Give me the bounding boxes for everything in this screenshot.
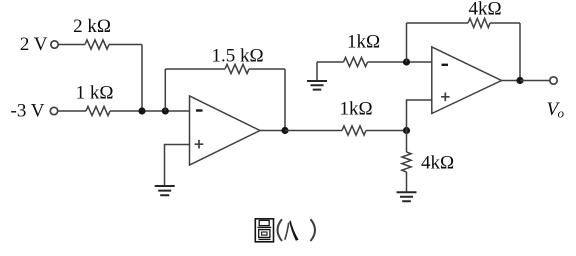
wire from U1 output to R 1k stage 2: [285, 130, 342, 132]
node B junction at U2 plus network: [403, 127, 410, 134]
svg-text:2 V: 2 V: [20, 34, 48, 55]
node junction feedback U2: [403, 58, 410, 65]
caption glyph BA (eight) left stroke: [285, 223, 289, 240]
ground for U1 plus input: [155, 186, 175, 195]
node junction of feedback branch U1: [162, 107, 169, 114]
svg-text:-3 V: -3 V: [11, 101, 45, 122]
wire feedback top left U1: [165, 68, 225, 70]
wire feedback left vertical U1: [164, 69, 166, 111]
wire from R 1k to node B: [366, 130, 407, 132]
ground at U2 inverting network: [307, 81, 327, 90]
resistor 4kOhm feedback: [468, 18, 490, 27]
wire U2 output: [502, 80, 521, 82]
ground below R 4k: [397, 192, 417, 201]
wire feedback right vertical U1: [284, 69, 286, 131]
wire R 1k to U2 inverting input: [368, 61, 432, 63]
resistor 1.5 kOhm feedback: [225, 64, 249, 73]
svg-text:1kΩ: 1kΩ: [339, 99, 372, 120]
resistor 1 kOhm input: [86, 106, 110, 115]
op-amp U1: [190, 96, 261, 165]
wire U1 output: [260, 130, 285, 132]
node U1 output junction: [281, 127, 288, 134]
resistor 4kOhm to ground: [402, 152, 411, 172]
wire feedback right vertical U2: [519, 23, 521, 81]
output terminal Vo: [550, 77, 557, 84]
resistor 2 kOhm: [85, 40, 109, 49]
svg-text:o: o: [558, 106, 565, 121]
wire from 2V terminal to R 2k: [58, 44, 85, 46]
caption glyph TU (figure): [255, 219, 273, 242]
wire feedback top right U1: [249, 68, 285, 70]
wire ground corner to R 1k U2: [317, 61, 344, 63]
wire feedback top left U2: [407, 22, 469, 24]
wire feedback left vertical U2: [406, 23, 408, 62]
caption open parenthesis: [278, 219, 283, 241]
node U2 output junction: [516, 77, 523, 84]
svg-text:2 kΩ: 2 kΩ: [73, 16, 111, 37]
op-amp U2: [432, 47, 502, 114]
terminal for -3 V input: [50, 107, 57, 114]
svg-text:1.5 kΩ: 1.5 kΩ: [211, 46, 263, 67]
wire node B up to U2 non-inverting input: [407, 100, 432, 131]
svg-text:1kΩ: 1kΩ: [347, 32, 380, 53]
wire U1 non-inverting input: [165, 145, 190, 186]
U1 plus sign: [195, 140, 204, 149]
wire R 4k to ground: [406, 172, 408, 192]
wire vertical drop from 2V branch to summing node: [141, 45, 143, 112]
svg-text:4kΩ: 4kΩ: [421, 153, 454, 174]
wire ground up to R 1k U2: [316, 62, 318, 81]
terminal for 2 V input: [51, 41, 58, 48]
svg-text:1 kΩ: 1 kΩ: [76, 83, 114, 104]
wire feedback top right U2: [490, 22, 520, 24]
node junction of 2V branch: [138, 107, 145, 114]
wire to output terminal: [520, 80, 550, 82]
U2 plus sign: [441, 93, 450, 102]
resistor 1kOhm between stages: [342, 126, 366, 135]
svg-text:4kΩ: 4kΩ: [468, 0, 501, 20]
resistor 1kOhm U2 inverting input: [344, 57, 368, 66]
U1 minus sign: [196, 109, 203, 111]
wire from -3V terminal to R 1k: [58, 110, 86, 112]
wire from R 1k to op-amp U1 inverting input: [110, 110, 190, 112]
wire node B down to R 4k: [406, 131, 408, 153]
U2 minus sign: [442, 64, 449, 66]
caption glyph BA (eight) right stroke: [289, 220, 298, 240]
caption close parenthesis: [311, 219, 316, 241]
wire from R 2k to corner: [109, 44, 142, 46]
